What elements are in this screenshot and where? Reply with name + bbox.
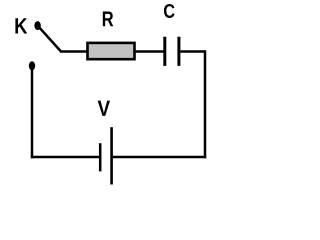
wire: right side vertical bbox=[204, 50, 207, 158]
label K bbox=[15, 18, 27, 33]
capacitor C right plate bbox=[177, 37, 180, 66]
wire: left side vertical bbox=[31, 68, 34, 158]
wire: capacitor to top-right corner bbox=[180, 50, 205, 53]
label R bbox=[103, 11, 114, 26]
battery V negative (short) plate bbox=[99, 143, 102, 171]
wire: resistor to capacitor bbox=[135, 50, 164, 53]
capacitor C left plate bbox=[163, 37, 166, 66]
switch K lower contact dot bbox=[29, 61, 35, 70]
resistor R body bbox=[88, 43, 135, 59]
wire: bottom left (left corner to battery) bbox=[31, 156, 99, 159]
label C bbox=[164, 4, 175, 18]
label V bbox=[98, 101, 110, 116]
switch K arm (open blade) bbox=[39, 28, 61, 52]
wire: bottom right (battery to right corner) bbox=[113, 156, 206, 159]
wire: switch arm to resistor bbox=[60, 50, 88, 53]
battery V positive (tall) plate bbox=[110, 127, 113, 184]
switch K upper contact dot bbox=[34, 21, 40, 30]
